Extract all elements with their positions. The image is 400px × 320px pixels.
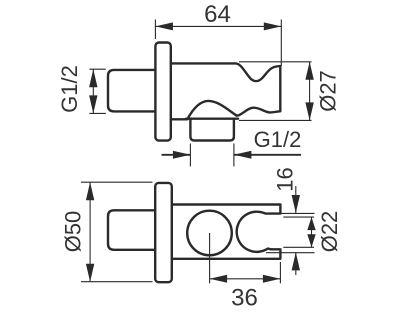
- dimension D27: up arrowhead: [305, 62, 313, 80]
- dimension D22: up arrowhead: [307, 217, 315, 230]
- dimension D22: inner extension lines: [283, 217, 314, 247]
- dimension G1/2 bottom: left leader with arrowhead: [162, 154, 191, 156]
- dimension 36: dimension line: [210, 278, 281, 280]
- dimension G1/2 left: down arrowhead: [89, 95, 97, 113]
- dimension D22: outer extension lines: [266, 213, 315, 252]
- dimension D27: extension lines: [239, 62, 312, 121]
- dimension D50: up arrowhead: [86, 182, 94, 200]
- svg-text:36: 36: [231, 285, 258, 312]
- svg-text:G1/2: G1/2: [57, 65, 82, 113]
- dimension 16: upper leader with down arrowhead: [295, 186, 297, 213]
- body stub behind flange (front view): [108, 210, 156, 250]
- dimension 36: left arrowhead: [210, 275, 228, 283]
- svg-text:Ø50: Ø50: [61, 211, 86, 253]
- dimension 36: center stem extension line: [209, 233, 211, 283]
- dimension 64: left arrowhead: [155, 22, 173, 30]
- dimension G1/2 left: extension lines: [89, 69, 105, 113]
- G1/2 inlet stub (side view): [108, 70, 156, 112]
- dimension G1/2 bottom: extension lines: [190, 144, 234, 167]
- svg-text:16: 16: [273, 167, 298, 191]
- dimension D50: down arrowhead: [86, 264, 94, 282]
- dimension D50: extension lines: [81, 182, 153, 282]
- svg-text:Ø22: Ø22: [317, 211, 342, 253]
- holder body outline (side view): [171, 63, 280, 119]
- dimension D50: dimension line: [89, 182, 91, 282]
- dimension 36: right extension line: [279, 262, 281, 283]
- dimension 64: extension lines: [155, 20, 281, 67]
- hose nut G1/2 (bottom outlet): [190, 119, 234, 141]
- dimension 64: dimension line: [155, 25, 281, 27]
- hose boss circle: [187, 211, 232, 256]
- dimension G1/2 left: dimension line: [92, 69, 94, 113]
- dimension D22: dimension line: [311, 217, 313, 247]
- dimension 64: right arrowhead: [264, 22, 282, 30]
- dimension G1/2 left: up arrowhead: [89, 69, 97, 87]
- svg-text:64: 64: [204, 1, 231, 28]
- svg-text:Ø27: Ø27: [316, 70, 341, 112]
- dimension 36: right arrowhead: [263, 275, 281, 283]
- holder bar with cradle fork (front view): [172, 205, 281, 259]
- wall flange (front view): [155, 183, 172, 282]
- dimension G1/2 bottom: right leader with arrowhead: [234, 154, 301, 156]
- wall flange (side view): [155, 43, 170, 141]
- dimension D27: down arrowhead: [305, 102, 313, 120]
- dimension D27: dimension line: [309, 62, 311, 121]
- hose nut base line: [186, 117, 238, 119]
- dimension 16: lower leader with up arrowhead: [295, 252, 297, 275]
- svg-text:G1/2: G1/2: [254, 127, 302, 152]
- dimension D22: down arrowhead: [307, 234, 315, 247]
